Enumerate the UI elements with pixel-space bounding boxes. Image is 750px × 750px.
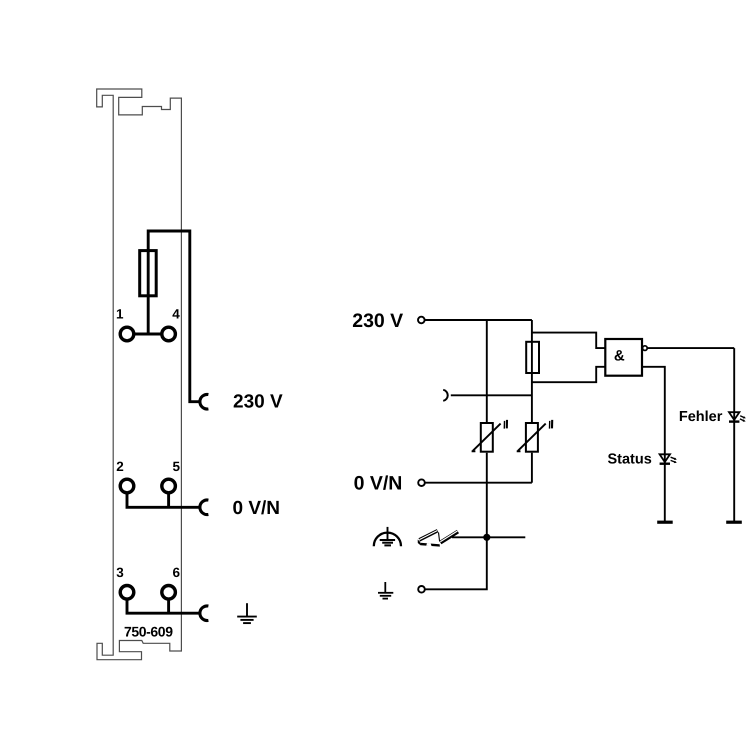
svg-text:4: 4 (172, 306, 180, 321)
svg-text:0 V/N: 0 V/N (354, 473, 403, 495)
svg-text:230 V: 230 V (233, 391, 283, 412)
svg-text:750-609: 750-609 (124, 624, 173, 640)
svg-text:6: 6 (173, 565, 181, 580)
svg-text:3: 3 (116, 565, 124, 580)
svg-text:Fehler: Fehler (679, 409, 723, 425)
svg-text:5: 5 (173, 459, 181, 474)
svg-text:0 V/N: 0 V/N (233, 498, 281, 519)
svg-text:Status: Status (607, 452, 651, 468)
svg-text:230 V: 230 V (352, 310, 403, 332)
svg-text:1: 1 (116, 306, 124, 321)
svg-text:&: & (614, 347, 625, 364)
svg-text:2: 2 (116, 459, 124, 474)
